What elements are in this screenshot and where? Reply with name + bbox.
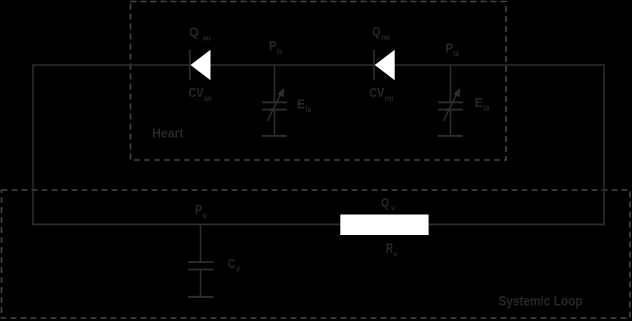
svg-text:Q: Q [381, 196, 389, 210]
svg-text:la: la [453, 48, 459, 58]
elastance E_la capacitor bottom plate [438, 109, 463, 111]
compliance C_v capacitor top plate [188, 261, 214, 263]
elastance E_la capacitor top plate [438, 101, 463, 103]
svg-text:v: v [203, 211, 208, 221]
E_la terminal bar [438, 135, 463, 137]
wire: top horizontal [33, 64, 604, 66]
node P_lv vertical wire [274, 65, 276, 102]
node P_la vertical wire [450, 65, 452, 102]
E_lv variable arrow shaft [268, 94, 282, 122]
svg-text:v: v [391, 203, 395, 213]
resistor R_v body (white box) [340, 215, 428, 236]
svg-text:R: R [386, 242, 393, 256]
svg-text:Q: Q [189, 25, 199, 39]
svg-text:C: C [228, 257, 236, 271]
svg-text:Q: Q [372, 25, 381, 39]
wire: right vertical [603, 64, 605, 225]
diode CV_mi cathode bar [373, 50, 375, 81]
svg-text:mi: mi [382, 32, 391, 42]
svg-text:CV: CV [369, 86, 385, 100]
C_v lower wire [200, 270, 202, 298]
svg-text:E: E [297, 97, 305, 111]
svg-text:Systemic Loop: Systemic Loop [499, 294, 583, 309]
diode CV_ao triangle (aortic valve) [191, 50, 211, 80]
svg-text:Heart: Heart [152, 126, 184, 141]
svg-text:lv: lv [306, 104, 312, 114]
svg-text:P: P [269, 39, 277, 53]
svg-text:v: v [236, 264, 240, 274]
diode CV_ao cathode bar [189, 50, 191, 81]
heart compartment dashed box [131, 2, 507, 161]
E_lv lower wire [274, 110, 276, 136]
E_la variable arrow shaft [444, 94, 458, 122]
svg-text:mi: mi [385, 93, 394, 103]
wire: left vertical [32, 64, 34, 225]
compliance C_v capacitor bottom plate [188, 269, 214, 271]
E_lv terminal bar [262, 135, 287, 137]
svg-text:E: E [475, 96, 483, 110]
svg-text:P: P [195, 203, 202, 217]
E_la lower wire [450, 110, 452, 136]
svg-text:P: P [446, 41, 454, 55]
diode CV_mi triangle (mitral valve) [375, 50, 395, 80]
svg-text:ao: ao [204, 93, 212, 103]
E_la variable arrow head [453, 88, 460, 98]
node P_v vertical wire [200, 225, 202, 262]
svg-text:CV: CV [189, 86, 205, 100]
E_lv variable arrow head [277, 88, 284, 98]
C_v terminal bar [188, 296, 214, 298]
elastance E_lv capacitor top plate [262, 101, 287, 103]
svg-text:ao: ao [203, 33, 212, 43]
systemic loop dashed box [2, 190, 631, 318]
elastance E_lv capacitor bottom plate [262, 109, 287, 111]
svg-text:la: la [483, 103, 489, 113]
svg-text:v: v [394, 249, 398, 259]
svg-text:lv: lv [277, 46, 283, 56]
wire: bottom horizontal [33, 223, 604, 225]
